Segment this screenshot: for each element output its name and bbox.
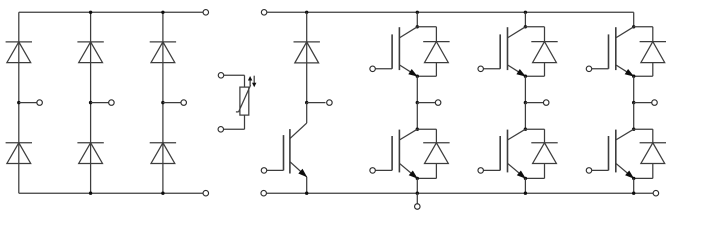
node emitter junction [524,75,527,78]
wire [525,102,543,104]
wire [634,102,652,104]
transistor Q1 body bar [398,27,400,70]
wire [416,12,418,26]
transistor Q5 body bar [615,27,617,70]
transistor Q1 gate lead [375,68,392,70]
wire [524,178,526,193]
transistor Q6 gate lead [592,169,609,171]
wire [544,63,546,77]
node chopper emitter junction [305,192,308,195]
wire [525,26,544,28]
diode D11 [423,42,449,63]
terminal AC1 [37,100,43,106]
node top bus junction [524,11,527,14]
transistor Q7 gate lead [267,169,284,171]
transistor Q4 emitter arrow [517,171,526,179]
wire [416,178,418,193]
transistor Q4 collector lead [508,129,526,140]
wire [435,63,437,77]
diode D3 [77,42,103,63]
terminal AC2 [109,100,115,106]
wire [544,164,546,179]
wire [162,12,164,193]
wire [416,103,418,130]
diode D15 [640,42,666,63]
terminal V [543,100,549,106]
transistor Q1 emitter arrow [408,69,418,77]
transistor Q6 collector lead [616,129,634,140]
transistor Q5 gate lead [592,68,609,70]
node bottom bus junction [161,192,164,195]
wire [267,11,634,13]
transistor Q1 emitter lead [399,65,417,76]
wire [633,103,635,130]
wire [634,26,653,28]
transistor Q7 gate bar [283,135,285,170]
transistor Q2 collector lead [399,129,417,140]
node emitter junction [416,177,419,180]
transistor Q4 gate lead [483,169,500,171]
wire [416,193,418,204]
node phase W midpoint [632,101,635,104]
diode D6 [150,143,176,164]
diode D14 [531,143,557,164]
terminal gate Q6 [586,168,592,174]
node phase V midpoint [524,101,527,104]
transistor Q6 emitter arrow [625,171,634,179]
terminal AC3 [181,100,187,106]
transistor Q7 emitter arrow [298,169,307,178]
node collector junction [524,25,527,28]
wire [417,26,436,28]
wire [634,128,653,130]
wire [633,178,635,193]
diode D5 [150,42,176,63]
wire [307,102,326,104]
terminal DC- (rectifier) [203,190,209,196]
wire [417,128,436,130]
diode D16 [640,143,666,164]
transistor Q6 body bar [615,130,617,173]
wire [435,164,437,179]
wire [244,115,246,129]
transistor Q3 body bar [507,27,509,70]
terminal thermistor T2 [218,127,224,133]
wire [524,76,526,102]
wire [524,103,526,130]
wire [91,102,109,104]
wire [163,102,181,104]
transistor Q2 gate bar [391,136,393,170]
node bottom bus junction [89,192,92,195]
node collector junction [416,128,419,131]
wire [417,102,435,104]
wire [633,76,635,102]
wire [416,76,418,102]
node chopper midpoint [305,101,308,104]
terminal thermistor T1 [218,73,224,79]
terminal gate Q2 [370,168,376,174]
transistor Q3 emitter arrow [516,69,526,77]
transistor Q6 emitter lead [616,163,634,178]
terminal W [652,100,658,106]
diode D13 [531,42,557,63]
node emitter junction [524,177,527,180]
node chopper top junction [305,11,308,14]
thermistor arrow down [253,76,255,84]
thermistor R1 body [240,87,249,115]
terminal DC+ (rectifier) [203,10,209,16]
terminal R+ [327,100,333,106]
wire [224,74,245,76]
node top bus junction [161,11,164,14]
transistor Q5 collector lead [616,27,634,38]
wire [652,164,654,179]
node top bus junction [416,11,419,14]
wire [90,12,92,193]
transistor Q3 collector lead [508,27,526,38]
diode D12 [423,143,449,164]
terminal gate Q3 [478,66,484,72]
transistor Q3 gate lead [483,68,500,70]
node collector junction [524,128,527,131]
wire [19,11,203,13]
node bottom bus junction [524,192,527,195]
transistor Q5 gate bar [608,34,610,68]
transistor Q5 emitter lead [616,65,634,76]
terminal R- (bus end) [653,190,659,196]
transistor Q1 gate bar [391,34,393,68]
terminal gate Q4 [478,168,484,174]
node collector junction [632,128,635,131]
transistor Q2 body bar [398,130,400,173]
node bottom bus junction [632,192,635,195]
node bottom bus junction [416,192,419,195]
transistor Q5 emitter arrow [625,69,635,77]
node collector junction [416,25,419,28]
terminal gate Q1 [370,66,376,72]
transistor Q1 collector lead [399,27,417,38]
terminal gate Q5 [586,66,592,72]
transistor Q7 emitter lead [290,162,307,177]
diode D4 [77,143,103,164]
transistor Q7 collector lead [290,123,307,139]
wire [18,12,20,193]
terminal U [435,100,441,106]
wire [306,103,308,124]
transistor Q2 emitter arrow [409,171,418,179]
thermistor arrow up [249,80,251,86]
transistor Q7 body bar [289,129,291,173]
wire [633,12,635,26]
transistor Q3 gate bar [499,34,501,68]
node phase U midpoint [416,101,419,104]
terminal DC+ (inverter) [261,10,267,16]
diode D2 [6,143,32,164]
terminal DC- (inverter) [261,190,267,196]
wire [19,102,37,104]
diode D7 [294,42,320,63]
wire [525,128,544,130]
transistor Q4 gate bar [499,136,501,170]
wire [306,12,308,102]
transistor Q2 emitter lead [399,163,417,178]
wire [19,192,203,194]
transistor Q4 emitter lead [508,163,526,178]
wire [652,63,654,77]
terminal gate Q7 [261,168,267,174]
node top bus junction [89,11,92,14]
transistor Q6 gate bar [608,136,610,170]
node emitter junction [632,75,635,78]
node AC midpoint [89,101,92,104]
transistor Q3 emitter lead [508,65,526,76]
node collector junction [632,25,635,28]
node emitter junction [416,75,419,78]
diode D1 [6,42,32,63]
wire [267,192,653,194]
transistor Q4 body bar [507,130,509,173]
wire [524,12,526,26]
wire [306,177,308,193]
terminal brake/DC midpoint [415,204,421,210]
transistor Q2 gate lead [375,169,392,171]
node AC midpoint [17,101,20,104]
thermistor R1 stroke [236,111,239,113]
node AC midpoint [161,101,164,104]
node emitter junction [632,177,635,180]
